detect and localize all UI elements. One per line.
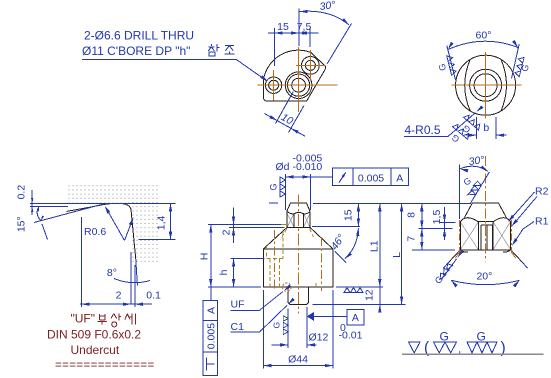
cone left slant bbox=[263, 227, 287, 249]
dim b extension right bbox=[495, 117, 497, 139]
4-R0.5 underline bbox=[404, 136, 448, 138]
middle bore lines bbox=[481, 225, 492, 250]
runout arrow symbol bbox=[339, 173, 346, 183]
body rectangle bbox=[263, 249, 333, 287]
centerline vertical center bbox=[298, 47, 300, 112]
svg-text:8°: 8° bbox=[107, 267, 117, 279]
centerline horizontal bbox=[258, 84, 338, 86]
svg-text:20°: 20° bbox=[476, 271, 492, 283]
svg-text:8: 8 bbox=[406, 212, 418, 218]
cap top bbox=[464, 203, 506, 218]
8deg vertical ray bbox=[130, 252, 132, 304]
stipple material right band bbox=[130, 203, 159, 263]
left hole cbore bbox=[265, 77, 281, 93]
dim 15 / 7,5 extension left bbox=[274, 28, 276, 66]
dim line 10 (slanted) bbox=[265, 114, 306, 137]
svg-text:R1: R1 bbox=[535, 216, 549, 228]
hex facet verticals bbox=[460, 221, 510, 249]
center hole bbox=[292, 78, 306, 92]
15deg arc bbox=[37, 207, 41, 221]
8deg wall ray bbox=[136, 258, 138, 285]
svg-text:4-R0.5: 4-R0.5 bbox=[405, 123, 441, 137]
svg-text:15: 15 bbox=[277, 21, 289, 33]
UF undercut dashed circle bbox=[283, 283, 292, 292]
hidden cbore bottom bbox=[267, 258, 284, 260]
svg-text:L1: L1 bbox=[369, 240, 381, 252]
hex right flat arc bbox=[501, 59, 507, 111]
center boss circle outer bbox=[285, 72, 312, 99]
dim line dia44 bbox=[263, 365, 333, 367]
body bottom extension right bbox=[336, 286, 383, 288]
svg-text:30°: 30° bbox=[468, 154, 485, 168]
finish symbol G cone leader bbox=[442, 259, 457, 280]
dia12 extension left bbox=[287, 309, 289, 349]
cone slant right bbox=[511, 250, 522, 262]
short extension left of cap bbox=[269, 202, 278, 204]
dim h line bbox=[233, 259, 235, 288]
dim line 12 bbox=[379, 287, 381, 312]
svg-text:2: 2 bbox=[116, 290, 122, 302]
svg-text:DIN 509 F0.6x0.2: DIN 509 F0.6x0.2 bbox=[47, 328, 141, 342]
dim 1,5 line bbox=[444, 207, 446, 240]
dim 0.2 line bbox=[31, 190, 33, 215]
finish symbol G pair on leader bbox=[445, 123, 471, 149]
middle facet top line bbox=[478, 220, 493, 222]
centerline ur hole vertical bbox=[309, 50, 311, 81]
hatch left hex wall bbox=[287, 213, 294, 227]
dim 1,4 line bbox=[170, 204, 172, 240]
dia44 extension left bbox=[262, 290, 264, 369]
15deg ray bbox=[34, 204, 104, 223]
svg-text:12: 12 bbox=[364, 289, 376, 301]
UF leader bbox=[260, 292, 283, 311]
finish triangles body bottom bbox=[344, 288, 363, 293]
datum A box bbox=[347, 310, 364, 326]
svg-text:Ød: Ød bbox=[276, 161, 290, 173]
finish symbol G cone bbox=[440, 264, 453, 280]
extension line mid (groove) bbox=[418, 227, 452, 229]
dia12 extension right bbox=[306, 307, 308, 348]
svg-text:0.005: 0.005 bbox=[358, 173, 384, 185]
dim line L bbox=[401, 203, 403, 304]
svg-text:==============: ============== bbox=[55, 359, 155, 371]
hidden slant dash right of hex bbox=[310, 229, 314, 237]
finish symbol G cap bbox=[468, 181, 482, 195]
upper-right hole cbore bbox=[302, 57, 320, 75]
20deg arc bbox=[451, 280, 519, 284]
hidden horizontal at hex base bbox=[276, 223, 287, 225]
boss bottom extension right bbox=[313, 304, 406, 306]
part outline (plan view) bbox=[263, 50, 325, 101]
30deg arc bbox=[300, 11, 349, 25]
C1 underline bbox=[231, 331, 260, 333]
svg-text:A: A bbox=[352, 312, 359, 324]
perpendicularity symbol rotated bbox=[206, 358, 214, 371]
svg-text:Ø44: Ø44 bbox=[288, 354, 308, 366]
extension line hex bottom left bbox=[412, 249, 455, 251]
svg-text:0.1: 0.1 bbox=[146, 290, 161, 302]
svg-text:G: G bbox=[440, 329, 449, 343]
hex view bore circle bbox=[474, 74, 497, 97]
hatch right wall bbox=[493, 221, 511, 249]
dim line 2 bbox=[233, 208, 235, 244]
svg-text:A: A bbox=[396, 173, 403, 185]
60deg left ray bbox=[447, 46, 456, 81]
60deg right ray bbox=[512, 44, 520, 79]
60deg arc bbox=[448, 41, 518, 49]
R2 leaders bbox=[509, 192, 535, 221]
datum A triangle bbox=[307, 312, 314, 321]
dim line 15 right bbox=[357, 203, 359, 226]
hidden drill line left bbox=[269, 259, 271, 288]
hex top chamfer arc left bbox=[460, 218, 478, 222]
finish symbol G left of hex bbox=[435, 55, 456, 78]
svg-text:7: 7 bbox=[406, 236, 418, 242]
C1 leader bbox=[260, 305, 288, 332]
cone slant left bbox=[449, 250, 460, 262]
dim 2 extension left bbox=[81, 217, 83, 307]
svg-text:-0.010: -0.010 bbox=[293, 161, 323, 173]
svg-text:Ø11 C'BORE DP "h": Ø11 C'BORE DP "h" bbox=[82, 44, 190, 58]
centerline left hole vertical bbox=[273, 70, 275, 101]
centerline ur hole horizontal bbox=[296, 64, 325, 66]
bottom boss cylinder with C1 chamfer bbox=[288, 287, 308, 304]
dim H line bbox=[210, 225, 212, 301]
hex bottom edge bbox=[460, 249, 510, 251]
svg-text:L: L bbox=[391, 252, 403, 258]
svg-text:A: A bbox=[206, 307, 218, 314]
svg-text:C1: C1 bbox=[231, 321, 245, 333]
dim 2 extension upper bbox=[208, 224, 281, 226]
R1 fillet arcs bbox=[460, 250, 510, 252]
gray rule bbox=[402, 353, 544, 355]
finish symbol G right of hex bbox=[514, 56, 532, 79]
dia d extension right bbox=[310, 174, 312, 210]
UF underline bbox=[231, 309, 260, 311]
datum A leader bbox=[314, 315, 347, 317]
svg-text:UF: UF bbox=[231, 299, 245, 311]
feature control frame runout 0.005 A bbox=[332, 168, 408, 185]
dim 10 extension ray A bbox=[276, 92, 294, 124]
4-R0.5 leader bbox=[448, 113, 475, 137]
hex top chamfer arc right bbox=[493, 218, 511, 222]
30deg vertical extension bbox=[459, 165, 461, 220]
hatch right hex wall bbox=[303, 213, 310, 227]
hex facet edges bbox=[294, 214, 303, 228]
hidden cbore line left bbox=[266, 246, 268, 258]
finish symbol G dia12 bbox=[272, 316, 289, 335]
svg-text:h: h bbox=[218, 269, 230, 275]
upper-right hole drill bbox=[305, 60, 315, 70]
extension top surface bbox=[30, 203, 176, 205]
dim extension mid (30deg ray base) bbox=[298, 9, 300, 47]
svg-text:30°: 30° bbox=[319, 0, 336, 13]
svg-text:H: H bbox=[199, 253, 211, 261]
hidden cbore line right bbox=[282, 231, 284, 258]
body bottom extension left bbox=[208, 286, 261, 288]
hex left flat arc bbox=[465, 59, 471, 111]
20deg extension right bbox=[522, 262, 528, 269]
svg-text:G: G bbox=[477, 329, 486, 343]
hex bottom bbox=[287, 226, 310, 228]
svg-text:Undercut: Undercut bbox=[71, 343, 120, 357]
FCF perpendicular 0.005 A vertical bbox=[203, 301, 218, 376]
svg-text:1,4: 1,4 bbox=[156, 215, 168, 230]
46deg arc bbox=[345, 228, 359, 259]
dim line dia12 bbox=[271, 344, 288, 346]
46deg slant extension bbox=[335, 251, 346, 262]
svg-text:2: 2 bbox=[221, 229, 233, 235]
R0.6 leader arrows bbox=[106, 207, 125, 241]
top extension line long (cap top) bbox=[313, 202, 471, 204]
dim extension right bbox=[309, 28, 311, 47]
centerline vertical bbox=[484, 156, 486, 262]
svg-text:60°: 60° bbox=[476, 30, 492, 42]
dim 10 extension ray B bbox=[289, 106, 305, 133]
cap top bbox=[287, 203, 310, 211]
centerline right hole front bbox=[320, 237, 322, 291]
dim b extension left bbox=[476, 117, 478, 139]
dim line 2 / 0.1 bbox=[80, 303, 152, 305]
hatch left wall bbox=[460, 222, 478, 250]
dim 2 extension lower bbox=[229, 226, 285, 228]
hex view outer circle bbox=[456, 55, 516, 115]
hex bottom extension right bbox=[312, 225, 360, 227]
faux hangul jo bbox=[224, 45, 234, 54]
svg-text:2-Ø6.6 DRILL THRU: 2-Ø6.6 DRILL THRU bbox=[84, 29, 194, 43]
dim 1,4 extension bottom bbox=[139, 239, 176, 241]
centerline main axis front bbox=[298, 195, 300, 314]
dim line b bbox=[466, 134, 477, 136]
30deg arc bbox=[460, 166, 488, 171]
hex view middle circle bbox=[470, 69, 502, 101]
dia44 extension right bbox=[332, 290, 334, 369]
svg-text:"UF": "UF" bbox=[71, 312, 96, 326]
cone hidden dashdot left bbox=[455, 220, 459, 259]
left hole drill bbox=[269, 80, 279, 90]
dim line 15 / 7,5 bbox=[268, 32, 319, 34]
big triangle bbox=[409, 342, 421, 353]
svg-text:0.005: 0.005 bbox=[206, 323, 218, 349]
hidden drill line right bbox=[278, 259, 280, 288]
dim h extension bbox=[231, 258, 265, 260]
svg-text:1,5: 1,5 bbox=[431, 210, 443, 225]
30deg slanted extension ray bbox=[327, 24, 352, 65]
faux hangul bu bbox=[98, 314, 107, 325]
dim 1,5 extension bbox=[439, 221, 456, 223]
15deg arc tail bbox=[42, 224, 48, 240]
dim line dia d bbox=[285, 176, 332, 178]
svg-text:R0.6: R0.6 bbox=[84, 226, 106, 238]
faux hangul cham bbox=[208, 44, 219, 56]
svg-text:0.2: 0.2 bbox=[16, 185, 28, 200]
svg-text:R2: R2 bbox=[535, 186, 549, 198]
svg-text:7,5: 7,5 bbox=[297, 21, 312, 33]
cone hidden dashdot right bbox=[512, 220, 516, 259]
hex view centerline horizontal bbox=[452, 84, 522, 86]
leader line to left hole bbox=[236, 59, 267, 80]
svg-text:15°: 15° bbox=[16, 216, 28, 232]
dim line L1 bbox=[379, 203, 381, 287]
8deg arc bbox=[114, 279, 150, 283]
hidden slant dash left of hex bbox=[281, 229, 287, 240]
R1 leader bbox=[513, 222, 534, 245]
extension 0.2 lower bbox=[30, 206, 68, 208]
faux hangul se bbox=[125, 313, 136, 324]
finish symbol G top bbox=[268, 177, 285, 197]
center boss circle mid bbox=[288, 74, 310, 96]
undercut profile bbox=[67, 203, 136, 258]
cap hex curve bbox=[287, 211, 310, 214]
hex sides bbox=[287, 211, 310, 227]
svg-text:15: 15 bbox=[343, 209, 355, 221]
stipple material top band bbox=[67, 184, 159, 203]
dia d extension left bbox=[284, 174, 286, 210]
20deg extension left bbox=[443, 262, 449, 269]
hidden dash near boss right bbox=[315, 283, 317, 287]
faux hangul sang bbox=[111, 313, 121, 326]
hex view centerline vertical bbox=[485, 52, 487, 119]
leader underline for note bbox=[82, 58, 236, 60]
cone right slant bbox=[310, 227, 333, 249]
dim line 8 and 7 bbox=[421, 203, 423, 250]
dim 0.1 extension right bbox=[134, 265, 136, 307]
30deg slant extension bbox=[470, 172, 489, 204]
svg-text:Ø12: Ø12 bbox=[309, 332, 329, 344]
svg-text:b: b bbox=[483, 122, 489, 134]
centerline left hole front bbox=[274, 230, 276, 291]
svg-text:-0.01: -0.01 bbox=[339, 330, 363, 342]
